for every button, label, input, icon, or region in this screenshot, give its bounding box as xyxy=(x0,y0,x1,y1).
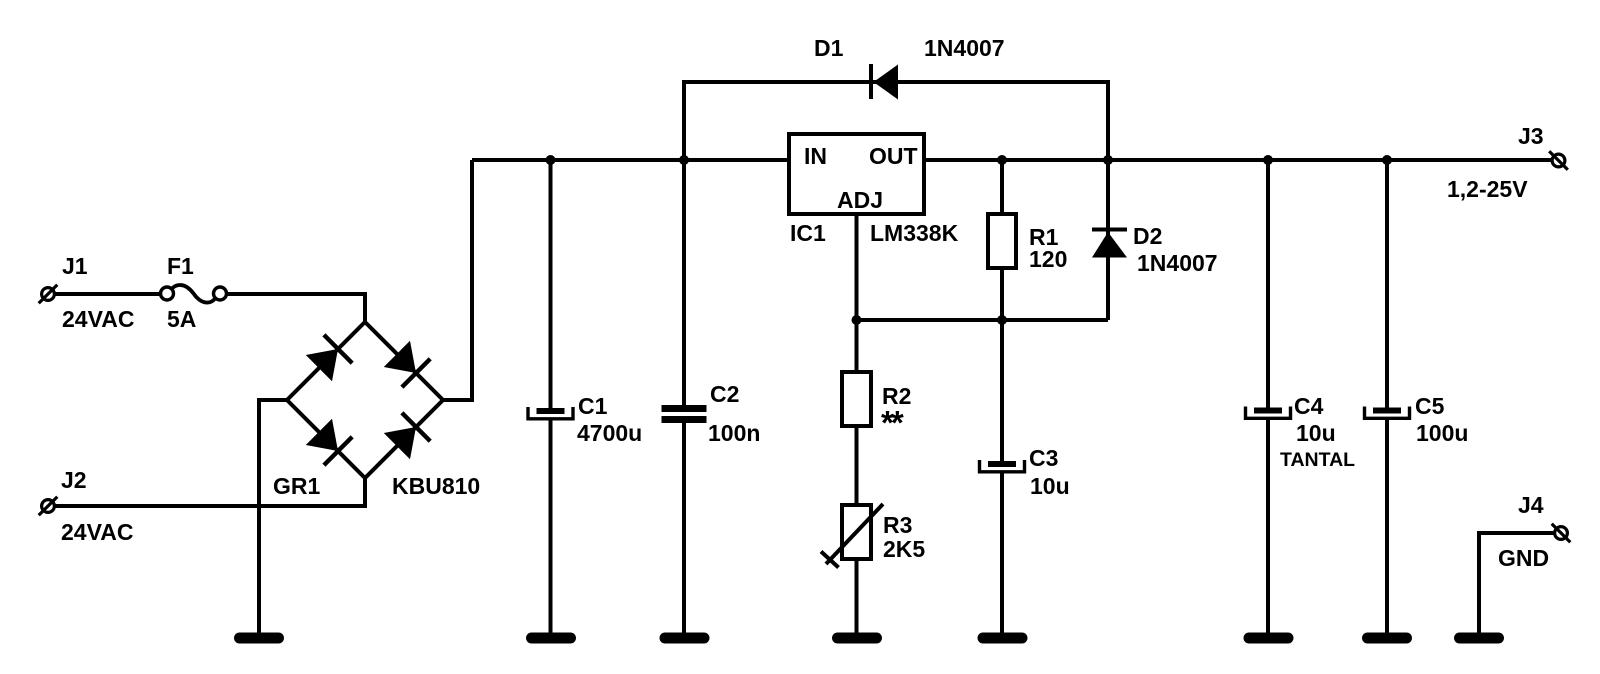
svg-text:5A: 5A xyxy=(167,306,196,332)
wire D2 branch xyxy=(1106,160,1110,320)
wire F1 to bridge top xyxy=(227,294,366,322)
diode D2 xyxy=(1092,230,1127,258)
fuse F1 xyxy=(161,285,227,303)
svg-text:D1: D1 xyxy=(814,35,844,61)
svg-text:J2: J2 xyxy=(61,467,87,493)
svg-text:LM338K: LM338K xyxy=(870,220,959,246)
svg-text:GR1: GR1 xyxy=(273,473,321,499)
wire C4 branch lower xyxy=(1266,418,1270,634)
resistor R3 (trimmer) xyxy=(821,504,883,568)
svg-text:C2: C2 xyxy=(710,381,739,407)
node D2/rail junction xyxy=(1103,155,1113,165)
svg-text:J4: J4 xyxy=(1518,492,1544,518)
node ADJ junction xyxy=(852,315,862,325)
svg-text:C5: C5 xyxy=(1415,393,1445,419)
connector J1 xyxy=(39,285,58,304)
node C2/rail junction xyxy=(679,155,689,165)
node C4/rail junction xyxy=(1263,155,1273,165)
bridge diode bottom-left xyxy=(306,419,352,465)
wire bridge left to ground xyxy=(259,400,287,634)
svg-text:120: 120 xyxy=(1029,246,1067,272)
svg-text:ADJ: ADJ xyxy=(837,187,883,213)
svg-text:100n: 100n xyxy=(708,420,760,446)
node C1/rail junction xyxy=(546,155,556,165)
svg-text:1,2-25V: 1,2-25V xyxy=(1447,176,1528,202)
node R1/rail junction xyxy=(997,155,1007,165)
wire C5 branch lower xyxy=(1385,418,1389,634)
wire main rail left of IC1 xyxy=(472,158,789,162)
connector J4 xyxy=(1552,524,1571,543)
svg-text:OUT: OUT xyxy=(869,143,918,169)
ground (C4) xyxy=(1249,633,1288,644)
svg-text:2K5: 2K5 xyxy=(883,536,925,562)
bridge diode top-left xyxy=(306,335,352,381)
wire ADJ rail xyxy=(857,318,1109,322)
wire C2 branch lower xyxy=(682,423,686,634)
wire R2 to R3 xyxy=(855,426,859,505)
svg-text:J3: J3 xyxy=(1518,123,1544,149)
svg-text:C3: C3 xyxy=(1029,445,1058,471)
capacitor C4 xyxy=(1246,407,1291,419)
wire C1 branch upper xyxy=(549,160,553,408)
capacitor C3 xyxy=(980,460,1025,472)
bridge rectifier GR1 diamond xyxy=(287,322,443,478)
wire J1 to F1 xyxy=(55,292,161,296)
wire R2 top xyxy=(855,320,859,372)
ground (R3) xyxy=(838,633,877,644)
svg-text:24VAC: 24VAC xyxy=(62,306,134,332)
connector J2 xyxy=(39,497,58,516)
wire C2 branch upper xyxy=(682,160,686,405)
svg-text:J1: J1 xyxy=(62,253,88,279)
ground (J4) xyxy=(1460,633,1499,644)
svg-text:24VAC: 24VAC xyxy=(61,519,133,545)
wire D1 top loop xyxy=(684,82,1108,160)
wire C5 branch upper xyxy=(1385,160,1389,408)
wire R1 top xyxy=(1000,160,1004,214)
wire C1 branch lower xyxy=(549,419,553,634)
resistor R1 xyxy=(988,214,1016,268)
svg-text:F1: F1 xyxy=(167,253,194,279)
svg-text:1N4007: 1N4007 xyxy=(924,35,1005,61)
svg-text:C1: C1 xyxy=(578,393,608,419)
ground (bridge) xyxy=(240,633,279,644)
wire ADJ pin down xyxy=(855,214,859,320)
svg-text:C4: C4 xyxy=(1294,393,1324,419)
svg-text:4700u: 4700u xyxy=(577,420,642,446)
capacitor C1 xyxy=(528,407,573,419)
svg-text:100u: 100u xyxy=(1416,420,1468,446)
svg-text:**: ** xyxy=(881,404,904,441)
svg-text:1N4007: 1N4007 xyxy=(1137,250,1218,276)
svg-text:IN: IN xyxy=(804,143,827,169)
svg-text:TANTAL: TANTAL xyxy=(1280,449,1355,471)
wire C3 to ground xyxy=(1000,472,1004,634)
wire main rail right of IC1 xyxy=(924,158,1552,162)
ground (C2) xyxy=(665,633,704,644)
node C5/rail junction xyxy=(1382,155,1392,165)
connector J3 xyxy=(1549,151,1568,170)
wire R3 to ground xyxy=(855,559,859,634)
wire J4 to ground xyxy=(1479,533,1555,634)
svg-text:R3: R3 xyxy=(883,512,912,538)
ground (C3) xyxy=(983,633,1022,644)
node R1/ADJ rail junction xyxy=(997,315,1007,325)
bridge diode bottom-right xyxy=(384,413,430,459)
bridge diode top-right xyxy=(384,341,430,387)
wire J2 to bridge bottom xyxy=(55,478,366,506)
wire bridge right up to rail xyxy=(443,160,472,400)
svg-text:D2: D2 xyxy=(1133,223,1162,249)
resistor R2 xyxy=(842,372,871,426)
op-amp IC1 regulator box xyxy=(789,134,924,214)
capacitor C2 xyxy=(662,405,707,423)
diode D1 xyxy=(871,64,898,100)
svg-text:IC1: IC1 xyxy=(790,220,826,246)
wire C4 branch upper xyxy=(1266,160,1270,408)
svg-text:GND: GND xyxy=(1498,545,1549,571)
wire R1 bottom to C3 xyxy=(1000,268,1004,461)
svg-text:10u: 10u xyxy=(1296,420,1336,446)
ground (C5) xyxy=(1368,633,1407,644)
svg-text:10u: 10u xyxy=(1030,473,1070,499)
ground (C1) xyxy=(532,633,571,644)
capacitor C5 xyxy=(1365,407,1410,419)
svg-text:KBU810: KBU810 xyxy=(392,473,480,499)
